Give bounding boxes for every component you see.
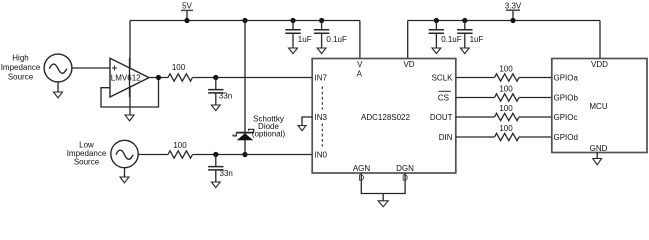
- wire feedback loop: [101, 78, 159, 108]
- svg-text:IN7: IN7: [315, 74, 328, 83]
- svg-text:0.1uF: 0.1uF: [441, 35, 462, 44]
- ground (C1): [211, 105, 220, 111]
- svg-text:High: High: [12, 54, 28, 63]
- svg-text:GPIOa: GPIOa: [554, 74, 579, 83]
- capacitor 0.1uF (5V rail): [314, 21, 347, 49]
- capacitor 1uF (5V rail): [285, 21, 311, 49]
- ground (MCU): [593, 159, 602, 165]
- wire R1 to IN7: [193, 77, 313, 79]
- wire IN3 to ground: [302, 117, 312, 126]
- svg-text:GPIOb: GPIOb: [554, 94, 579, 103]
- svg-text:LMV612: LMV612: [111, 73, 141, 82]
- wire VDD stem: [599, 21, 601, 59]
- svg-text:100: 100: [499, 65, 513, 74]
- resistor R1 100: [168, 74, 193, 81]
- wire diode clamp branch: [244, 21, 246, 155]
- svg-text:GPIOc: GPIOc: [554, 113, 578, 122]
- wire R6 to GPIOd: [519, 136, 552, 138]
- svg-text:100: 100: [173, 141, 187, 150]
- svg-text:DIN: DIN: [439, 133, 453, 142]
- wire VD stem: [407, 21, 409, 59]
- op-amp U1 LMV612: [110, 58, 149, 97]
- voltage source V2 low impedance: [111, 140, 138, 167]
- svg-text:IN3: IN3: [315, 113, 328, 122]
- ground (high impedance source): [54, 82, 63, 98]
- svg-text:ADC128S022: ADC128S022: [361, 113, 410, 122]
- junction dot 0.1uF: [319, 18, 324, 23]
- node 3.3V supply: [506, 10, 520, 20]
- ground (low impedance source): [120, 168, 129, 183]
- wire DOUT: [456, 116, 495, 118]
- svg-text:33n: 33n: [219, 92, 232, 101]
- svg-text:AGN: AGN: [353, 164, 371, 173]
- capacitor 0.1uF (3.3V rail): [429, 21, 462, 49]
- svg-text:V: V: [357, 60, 363, 69]
- junction dot 5V tap: [184, 18, 189, 23]
- svg-text:GPIOd: GPIOd: [554, 133, 578, 142]
- ground (IN3): [298, 126, 306, 131]
- svg-text:5V: 5V: [182, 2, 192, 11]
- svg-text:Impedance: Impedance: [1, 63, 41, 72]
- wire source to R2: [138, 154, 168, 156]
- wire R3 to GPIOa: [519, 77, 552, 79]
- junction dot diode branch: [242, 18, 247, 23]
- wire MCU GND stem: [596, 153, 598, 159]
- svg-text:GND: GND: [590, 144, 608, 153]
- ground (1uF 3.3V): [460, 48, 469, 54]
- junction dot 1uF (3.3V): [462, 18, 467, 23]
- ground (0.1uF): [317, 48, 326, 54]
- svg-text:VDD: VDD: [591, 60, 608, 69]
- svg-text:100: 100: [499, 85, 513, 94]
- svg-text:DGN: DGN: [396, 164, 414, 173]
- svg-text:33n: 33n: [220, 169, 233, 178]
- IC U2 ADC128S022: [312, 59, 456, 174]
- resistor R2 100: [168, 151, 193, 158]
- svg-text:(optional): (optional): [252, 130, 286, 139]
- svg-text:Source: Source: [74, 158, 100, 167]
- wire 3.3V rail: [408, 20, 600, 22]
- dashed pin continuation: [321, 87, 323, 147]
- svg-text:CS: CS: [438, 94, 449, 103]
- svg-text:0.1uF: 0.1uF: [326, 35, 347, 44]
- resistor R3 100: [495, 74, 520, 81]
- ground (ADC): [378, 201, 388, 207]
- junction dot 0.1uF (3.3V): [434, 18, 439, 23]
- voltage source V1 high impedance: [44, 54, 72, 82]
- svg-text:DOUT: DOUT: [430, 113, 453, 122]
- wire VA stem: [359, 21, 361, 59]
- wire CS: [456, 97, 495, 99]
- resistor R4 100: [495, 94, 520, 101]
- svg-text:1uF: 1uF: [298, 35, 312, 44]
- svg-text:100: 100: [499, 104, 513, 113]
- capacitor C1 33n: [208, 78, 232, 106]
- junction dot 1uF: [290, 18, 295, 23]
- junction dot op-amp output: [156, 75, 161, 80]
- wire AGND/DGND join: [361, 173, 405, 201]
- wire R4 to GPIOb: [519, 97, 552, 99]
- ground (0.1uF 3.3V): [432, 48, 441, 54]
- wire DIN: [456, 136, 495, 138]
- wire R5 to GPIOc: [519, 116, 552, 118]
- svg-text:3.3V: 3.3V: [505, 2, 522, 11]
- svg-text:MCU: MCU: [589, 102, 607, 111]
- svg-text:Source: Source: [8, 73, 34, 82]
- wire op-amp V+ supply drop: [129, 21, 131, 116]
- wire 5V rail: [130, 20, 360, 22]
- svg-text:IN0: IN0: [315, 151, 328, 160]
- ground (1uF): [289, 48, 298, 54]
- wire R2 to IN0: [193, 154, 313, 156]
- IC U3 MCU: [552, 59, 647, 153]
- svg-text:VD: VD: [403, 60, 414, 69]
- wire source to op-amp: [72, 67, 110, 69]
- junction dot 33n C1: [213, 75, 218, 80]
- resistor R5 100: [495, 113, 520, 120]
- junction dot diode anode: [242, 152, 247, 157]
- ground (C2): [211, 182, 220, 188]
- junction dot 33n C2: [213, 152, 218, 157]
- wire op-amp output: [149, 77, 168, 79]
- junction dot 3.3V tap: [510, 18, 515, 23]
- svg-text:100: 100: [172, 63, 186, 72]
- capacitor 1uF (3.3V rail): [457, 21, 483, 49]
- svg-text:100: 100: [499, 124, 513, 133]
- svg-text:SCLK: SCLK: [432, 74, 454, 83]
- svg-text:A: A: [357, 70, 363, 79]
- ground (op-amp supply): [125, 115, 134, 121]
- svg-text:1uF: 1uF: [470, 35, 484, 44]
- resistor R6 100: [495, 133, 520, 140]
- node 5V supply: [181, 10, 193, 20]
- wire SCLK: [456, 77, 495, 79]
- capacitor C2 33n: [208, 155, 233, 183]
- diode D1 schottky: [233, 129, 254, 140]
